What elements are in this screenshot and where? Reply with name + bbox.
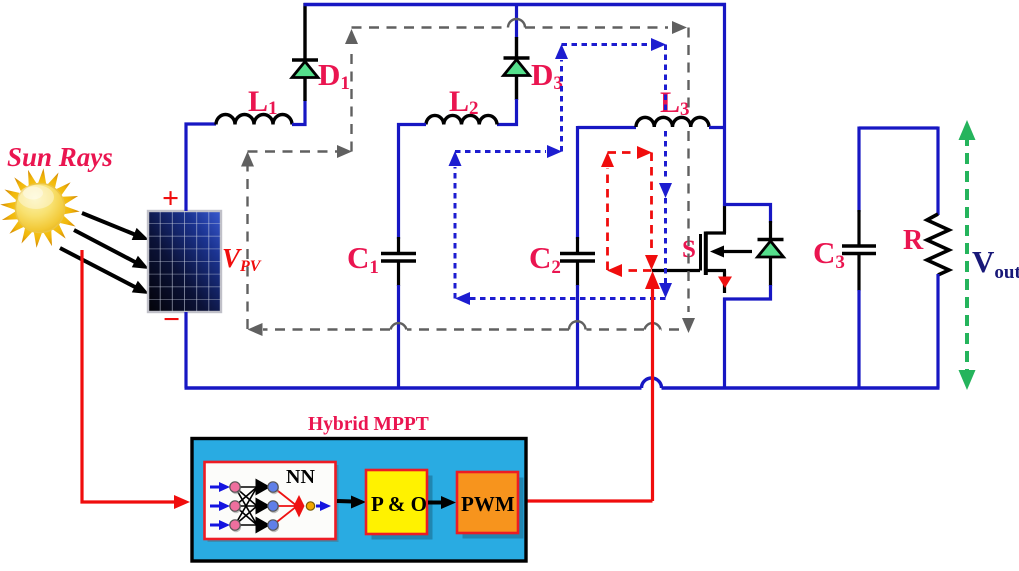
- V_out measurement arrow: [959, 120, 976, 390]
- sun: [0, 168, 80, 248]
- arrow NN to P&O: [337, 496, 366, 509]
- body diode of S: [758, 221, 784, 286]
- wire C2 branch top: [576, 126, 579, 239]
- red loop left vertical segment: [601, 152, 614, 270]
- blue loop mid vertical segment: [555, 44, 568, 152]
- svg-text:R: R: [903, 225, 924, 256]
- wire PV positive to L1: [186, 124, 216, 211]
- gray loop mid vertical segment: [345, 29, 358, 152]
- capacitor C3: [842, 210, 876, 291]
- red loop right vertical segment: [645, 153, 658, 271]
- wire C3 to bottom rail: [857, 290, 860, 388]
- wire C2 node to L3: [578, 126, 637, 129]
- gray loop bottom horizontal segment with hops: [248, 321, 680, 336]
- blue loop bottom horizontal segment: [455, 292, 666, 305]
- svg-text:NN: NN: [286, 466, 315, 488]
- sun ray arrow 2: [74, 230, 149, 269]
- gray loop right vertical segment: [682, 28, 695, 334]
- wire body-diode loop bottom: [723, 285, 771, 299]
- wire switch to bottom rail: [723, 298, 726, 389]
- blue loop lower horizontal segment: [455, 145, 562, 158]
- wire L2 left to C1 branch: [399, 125, 427, 240]
- gray loop top horizontal segment: [352, 19, 688, 34]
- blue loop top horizontal segment: [562, 38, 667, 51]
- capacitor C1: [381, 237, 416, 286]
- svg-text:Hybrid MPPT: Hybrid MPPT: [308, 414, 429, 435]
- transistor S (MOSFET): [701, 204, 753, 293]
- sun ray arrow 3: [60, 248, 149, 294]
- capacitor C2: [560, 237, 595, 286]
- wire L1 to D1 node: [292, 100, 305, 125]
- red loop bottom horizontal segment: [607, 264, 652, 277]
- blue loop right vertical segment: [659, 45, 672, 299]
- svg-text:Sun Rays: Sun Rays: [7, 142, 113, 172]
- red arrow on source leg: [718, 277, 732, 289]
- red control wire PWM to switch: [527, 271, 660, 501]
- svg-text:+: +: [162, 182, 179, 215]
- wire C2 to bottom rail: [576, 285, 579, 388]
- wire PV negative to bottom rail: [184, 312, 187, 388]
- wire C1 to bottom rail: [397, 285, 400, 388]
- wire L3 to switch node: [709, 126, 726, 129]
- wire R branch top: [936, 127, 939, 216]
- inductor L3: [636, 117, 709, 127]
- diode D3: [504, 37, 530, 100]
- solar panel PV module: [148, 211, 221, 312]
- sun ray arrow 1: [82, 213, 149, 240]
- wire D3 top: [515, 5, 518, 39]
- gray loop lower horizontal segment: [248, 145, 353, 158]
- red loop top horizontal segment: [608, 146, 653, 159]
- wire bottom rail with hop over control wire: [185, 386, 940, 389]
- gray loop left vertical segment: [241, 152, 254, 330]
- resistor R: [927, 214, 949, 275]
- hybrid MPPT box: [192, 439, 526, 562]
- wire top rail: [304, 3, 727, 6]
- NN block: [205, 462, 339, 542]
- PWM block: [457, 472, 524, 539]
- inductor L1: [216, 115, 292, 125]
- svg-text:PWM: PWM: [461, 492, 515, 516]
- arrow P&O to PWM: [428, 496, 456, 509]
- wire right vertical drain feed: [723, 3, 726, 204]
- wire gate drive: [652, 269, 700, 272]
- P&O block: [366, 470, 433, 540]
- wire output loop top: [859, 126, 938, 129]
- red sense wire sun to MPPT: [82, 250, 190, 509]
- inductor L2: [426, 115, 497, 124]
- wire C3 branch top: [857, 127, 860, 213]
- svg-text:P & O: P & O: [371, 492, 427, 516]
- blue loop left vertical segment: [449, 151, 462, 299]
- wire body-diode loop top: [723, 205, 771, 224]
- wire R to bottom rail: [936, 274, 939, 388]
- svg-text:−: −: [163, 303, 180, 336]
- diode D1: [292, 3, 318, 101]
- wire D3 to L2 node: [497, 99, 517, 125]
